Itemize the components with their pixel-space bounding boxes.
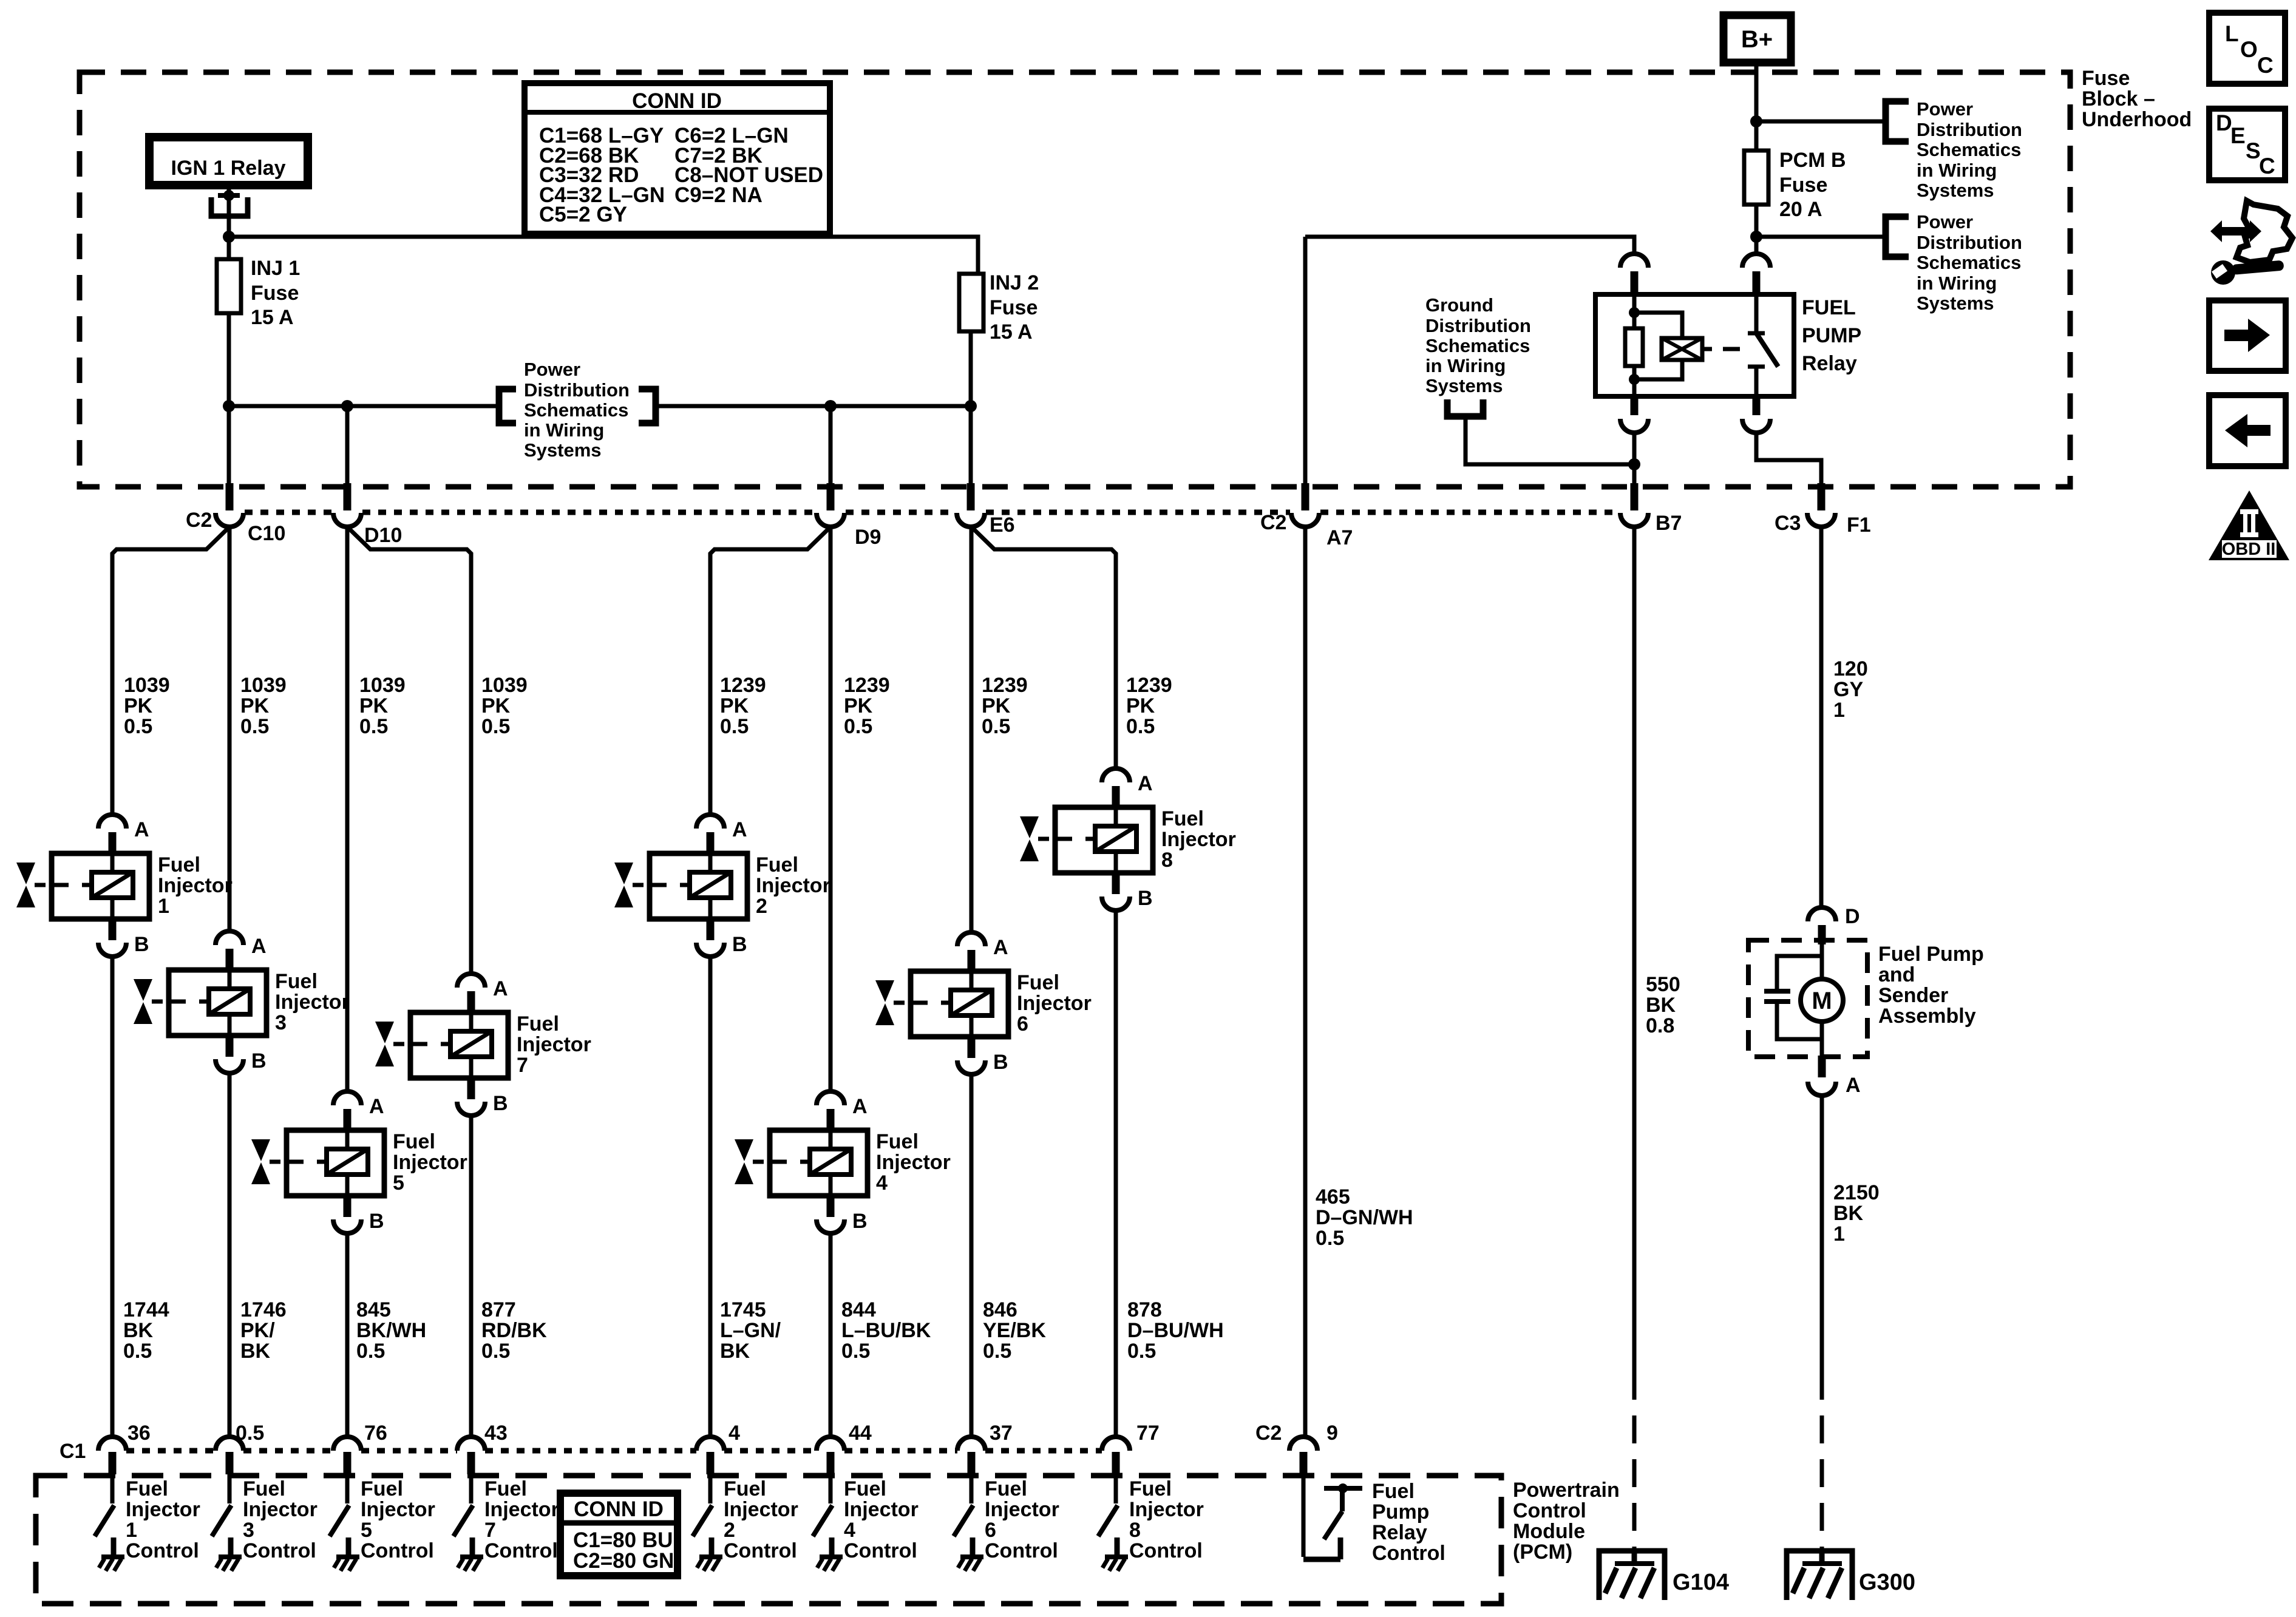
svg-text:Relay: Relay <box>1372 1521 1427 1544</box>
svg-text:1: 1 <box>1833 1222 1845 1246</box>
wire injector 4 return to PCM <box>829 1233 833 1437</box>
svg-text:Powertrain: Powertrain <box>1513 1479 1620 1502</box>
svg-text:550: 550 <box>1646 973 1680 996</box>
svg-text:Control: Control <box>126 1539 199 1562</box>
svg-text:Injector: Injector <box>756 874 830 897</box>
svg-text:Systems: Systems <box>1917 180 1994 201</box>
bracket power distribution callout right <box>639 389 656 423</box>
svg-text:Control: Control <box>243 1539 316 1562</box>
wire PCM B fuse to PD junction 2 <box>1754 205 1759 237</box>
bracket PD callout 2 <box>1886 217 1909 257</box>
svg-text:0.5: 0.5 <box>982 715 1010 738</box>
svg-text:Injector: Injector <box>484 1498 559 1521</box>
svg-text:G104: G104 <box>1673 1570 1729 1595</box>
switch fuel injector 1 control driver <box>95 1474 124 1571</box>
svg-text:B: B <box>1138 887 1153 910</box>
svg-text:PK: PK <box>481 694 511 717</box>
svg-text:Fuel Pump: Fuel Pump <box>1878 943 1984 966</box>
svg-text:Distribution: Distribution <box>1917 119 2022 140</box>
svg-text:Injector: Injector <box>158 874 233 897</box>
svg-text:C2=80 GN: C2=80 GN <box>573 1549 674 1573</box>
connector PCM pin 4 <box>696 1437 724 1451</box>
svg-text:Control: Control <box>1372 1542 1445 1565</box>
svg-text:C10: C10 <box>248 522 285 545</box>
svg-text:PK: PK <box>240 694 270 717</box>
svg-text:1: 1 <box>1833 699 1845 722</box>
wire C10 drop to injector 3 <box>228 527 232 931</box>
svg-text:Fuel: Fuel <box>361 1477 403 1500</box>
switch fuel injector 2 control driver <box>693 1474 722 1571</box>
wire E6 branch to injector 8 <box>971 527 1116 768</box>
motor fuel pump motor <box>1801 979 1843 1022</box>
node bus1 junction <box>223 231 235 243</box>
connector PCM pin 37 <box>957 1437 985 1451</box>
wire D10 branch to injector 7 <box>347 527 471 974</box>
wire B+ down to PD junction <box>1754 63 1759 121</box>
ground G104 <box>1599 1551 1665 1600</box>
svg-text:C2: C2 <box>186 509 212 532</box>
svg-text:OBD II: OBD II <box>2222 540 2276 559</box>
icon forward arrow box <box>2209 300 2286 371</box>
svg-text:M: M <box>1812 988 1832 1014</box>
connector relay switch top <box>1742 254 1770 268</box>
svg-text:0.8: 0.8 <box>1646 1014 1674 1037</box>
relay switch blade <box>1748 331 1765 336</box>
svg-text:1: 1 <box>126 1519 137 1542</box>
fuel injector 6 <box>875 932 1008 1074</box>
svg-text:Schematics: Schematics <box>1425 335 1530 356</box>
svg-text:846: 846 <box>983 1298 1017 1321</box>
svg-text:in Wiring: in Wiring <box>1917 273 1997 294</box>
svg-text:1239: 1239 <box>720 674 766 697</box>
svg-text:Sender: Sender <box>1878 984 1948 1007</box>
svg-text:C1: C1 <box>59 1440 86 1463</box>
svg-text:PK: PK <box>720 694 749 717</box>
svg-text:Fuel: Fuel <box>985 1477 1027 1500</box>
svg-text:Fuel: Fuel <box>756 853 798 876</box>
svg-text:FUEL: FUEL <box>1802 296 1856 319</box>
svg-text:INJ 1: INJ 1 <box>251 257 300 280</box>
connector F1 at fuse block boundary <box>1818 483 1826 510</box>
svg-text:D–BU/WH: D–BU/WH <box>1127 1319 1224 1342</box>
svg-text:7: 7 <box>484 1519 496 1542</box>
svg-text:Control: Control <box>985 1539 1058 1562</box>
wire bus2 to D9 connector <box>829 406 833 483</box>
svg-text:465: 465 <box>1316 1185 1350 1209</box>
node bus2 junction at INJ2 column <box>965 400 977 412</box>
bracket ground distribution callout <box>1447 399 1483 416</box>
svg-text:A: A <box>493 977 508 1000</box>
connector PCM pin 36 <box>98 1437 126 1451</box>
svg-text:C9=2 NA: C9=2 NA <box>674 183 763 207</box>
svg-text:Power: Power <box>524 359 580 380</box>
icon OBD II triangle <box>2209 490 2289 560</box>
svg-text:0.5: 0.5 <box>124 715 152 738</box>
svg-text:INJ 2: INJ 2 <box>990 271 1039 294</box>
svg-text:0.5: 0.5 <box>481 715 510 738</box>
svg-text:CONN ID: CONN ID <box>574 1497 664 1521</box>
svg-text:Fuel: Fuel <box>844 1477 886 1500</box>
connector B7 at fuse block boundary <box>1631 483 1639 510</box>
node ground distribution junction <box>1628 458 1640 470</box>
svg-text:Systems: Systems <box>1917 293 1994 314</box>
wire capacitor branch top <box>1777 956 1822 989</box>
svg-text:15 A: 15 A <box>990 320 1033 344</box>
svg-text:Fuel: Fuel <box>158 853 200 876</box>
wire E6 drop to injector 6 <box>970 527 974 932</box>
svg-text:Control: Control <box>724 1539 797 1562</box>
svg-text:PK: PK <box>1126 694 1155 717</box>
svg-text:1039: 1039 <box>359 674 406 697</box>
connector C10 at fuse block boundary <box>226 483 234 510</box>
svg-text:BK/WH: BK/WH <box>356 1319 426 1342</box>
node bus2 junction at D9 column <box>824 400 837 412</box>
svg-text:Ground: Ground <box>1425 294 1493 316</box>
svg-text:B: B <box>493 1092 508 1115</box>
svg-text:4: 4 <box>876 1171 888 1195</box>
svg-text:2150: 2150 <box>1833 1181 1880 1204</box>
wire relay coil to B7 <box>1632 433 1637 483</box>
svg-text:Assembly: Assembly <box>1878 1005 1976 1028</box>
svg-text:C: C <box>2259 154 2275 178</box>
svg-text:Fuse: Fuse <box>251 282 299 305</box>
svg-text:Relay: Relay <box>1802 352 1857 375</box>
svg-text:0.5: 0.5 <box>356 1340 385 1363</box>
wire INJ1 fuse to C2 connector <box>227 313 231 483</box>
wire bus2 right segment <box>656 404 971 408</box>
svg-text:Fuse: Fuse <box>1779 174 1827 197</box>
svg-text:C5=2 GY: C5=2 GY <box>539 203 627 226</box>
svg-text:3: 3 <box>243 1519 254 1542</box>
svg-text:(PCM): (PCM) <box>1513 1541 1572 1564</box>
connector relay switch bottom <box>1753 395 1761 415</box>
svg-text:6: 6 <box>985 1519 996 1542</box>
wire pump internal bottom <box>1820 1022 1824 1057</box>
svg-text:1239: 1239 <box>844 674 890 697</box>
svg-text:Fuel: Fuel <box>724 1477 766 1500</box>
svg-text:Injector: Injector <box>844 1498 919 1521</box>
svg-text:1239: 1239 <box>982 674 1028 697</box>
svg-text:O: O <box>2240 37 2258 62</box>
svg-text:Injector: Injector <box>1161 828 1236 851</box>
svg-text:76: 76 <box>364 1422 387 1445</box>
svg-text:Fuel: Fuel <box>126 1477 168 1500</box>
svg-text:C3: C3 <box>1775 512 1801 535</box>
wire C2 branch to injector 1 <box>112 527 229 815</box>
fuse block underhood dashed boundary <box>80 72 2070 487</box>
fuel injector 8 <box>1020 768 1153 910</box>
fuel injector 2 <box>614 815 747 957</box>
svg-text:Power: Power <box>1917 211 1973 232</box>
wire bus2 left segment <box>229 404 498 408</box>
svg-text:E6: E6 <box>990 514 1015 537</box>
switch fuel injector 3 control driver <box>212 1474 242 1571</box>
wire bus1 to INJ2 fuse <box>229 237 978 274</box>
fuse PCM B <box>1744 151 1768 205</box>
wire D9 drop to injector 4 <box>829 527 833 1091</box>
wire IGN relay to bus junction <box>227 185 231 237</box>
wire injector 7 return to PCM <box>469 1116 474 1437</box>
svg-text:PK: PK <box>844 694 873 717</box>
svg-text:1: 1 <box>158 895 169 918</box>
svg-text:D9: D9 <box>855 526 881 549</box>
svg-text:E: E <box>2230 123 2246 148</box>
svg-text:Fuel: Fuel <box>484 1477 527 1500</box>
fuse INJ 2 <box>959 274 983 331</box>
svg-text:in Wiring: in Wiring <box>1917 160 1997 181</box>
svg-text:A: A <box>1846 1074 1861 1097</box>
wire PD branch 1 <box>1756 120 1886 124</box>
svg-text:Control: Control <box>1129 1539 1203 1562</box>
switch fuel injector 8 control driver <box>1098 1474 1128 1571</box>
IGN 1 Relay box <box>149 137 308 185</box>
switch fuel pump relay control driver <box>1303 1474 1362 1559</box>
fuel pump and sender assembly dashed box <box>1748 940 1867 1057</box>
wire relay coil loop <box>1634 313 1682 379</box>
svg-text:7: 7 <box>517 1054 528 1077</box>
svg-text:4: 4 <box>844 1519 855 1542</box>
wire B7 dashed section <box>1632 1372 1637 1548</box>
wire A7 riser <box>1303 237 1308 483</box>
svg-text:120: 120 <box>1833 657 1868 680</box>
connector PCM pin 9 <box>1289 1437 1317 1451</box>
svg-text:S: S <box>2246 138 2261 163</box>
svg-text:Distribution: Distribution <box>524 379 630 401</box>
svg-text:D: D <box>1845 905 1860 928</box>
svg-text:BK: BK <box>123 1319 154 1342</box>
wire pump to ground solid <box>1820 1096 1824 1372</box>
svg-text:PK/: PK/ <box>240 1319 275 1342</box>
svg-text:43: 43 <box>484 1422 508 1445</box>
wire injector 1 return to PCM <box>110 957 115 1437</box>
svg-text:Power: Power <box>1917 98 1973 120</box>
svg-text:0.5: 0.5 <box>983 1340 1011 1363</box>
svg-text:Injector: Injector <box>243 1498 318 1521</box>
svg-text:Fuel: Fuel <box>1017 971 1059 994</box>
svg-text:B: B <box>369 1210 384 1233</box>
connector pump D <box>1808 907 1836 921</box>
svg-text:878: 878 <box>1127 1298 1162 1321</box>
svg-text:9: 9 <box>1326 1422 1338 1445</box>
svg-text:0.5: 0.5 <box>1126 715 1155 738</box>
svg-text:Distribution: Distribution <box>1917 232 2022 253</box>
svg-text:Fuel: Fuel <box>1161 807 1204 830</box>
switch fuel injector 4 control driver <box>813 1474 843 1571</box>
node bus2 junction at D10 column <box>341 400 353 412</box>
svg-text:B: B <box>251 1049 267 1073</box>
svg-text:6: 6 <box>1017 1012 1028 1036</box>
fuel injector 7 <box>375 974 508 1116</box>
svg-text:37: 37 <box>990 1422 1013 1445</box>
fuse INJ 1 <box>217 259 241 313</box>
fuel injector 5 <box>251 1091 384 1233</box>
svg-text:1039: 1039 <box>124 674 170 697</box>
connector D9 at fuse block boundary <box>827 483 835 510</box>
wire relay resistor bottom <box>1632 366 1637 396</box>
PCM dotted connector row <box>126 1448 216 1454</box>
svg-text:F1: F1 <box>1847 514 1871 537</box>
svg-text:1745: 1745 <box>720 1298 766 1321</box>
IGN 1 relay output terminal clip <box>223 190 234 201</box>
svg-text:Systems: Systems <box>524 439 602 461</box>
svg-text:A: A <box>732 818 747 841</box>
svg-text:A: A <box>369 1095 384 1118</box>
icon DESC box <box>2209 109 2285 180</box>
wire injector 6 return to PCM <box>970 1074 974 1437</box>
node PD branch 2 <box>1750 231 1762 243</box>
connector PCM pin 77 <box>1102 1437 1130 1451</box>
svg-text:C: C <box>2257 53 2274 78</box>
icon LOC box <box>2209 13 2285 84</box>
svg-text:D–GN/WH: D–GN/WH <box>1316 1206 1413 1229</box>
wire A7 to PCM pin 9 <box>1303 527 1308 1437</box>
svg-text:Block –: Block – <box>2082 87 2155 110</box>
svg-text:0.5: 0.5 <box>123 1340 152 1363</box>
svg-text:YE/BK: YE/BK <box>983 1319 1046 1342</box>
svg-text:Fuel: Fuel <box>393 1130 435 1153</box>
svg-text:Pump: Pump <box>1372 1500 1429 1524</box>
svg-text:8: 8 <box>1129 1519 1141 1542</box>
relay coil to switch dashed link <box>1702 347 1712 351</box>
wire injector 5 return to PCM <box>345 1233 350 1437</box>
svg-text:0.5: 0.5 <box>481 1340 510 1363</box>
svg-text:0.5: 0.5 <box>236 1422 264 1445</box>
svg-text:Injector: Injector <box>517 1033 591 1056</box>
ground G300 <box>1787 1551 1852 1600</box>
svg-text:BK: BK <box>1646 994 1676 1017</box>
switch fuel injector 7 control driver <box>453 1474 483 1571</box>
wire INJ1 fuse feed <box>227 237 231 259</box>
resistor relay coil resistor <box>1625 328 1643 366</box>
svg-text:77: 77 <box>1136 1422 1160 1445</box>
svg-text:PUMP: PUMP <box>1802 324 1861 347</box>
svg-text:0.5: 0.5 <box>841 1340 870 1363</box>
connector relay coil top <box>1620 254 1648 268</box>
svg-text:A7: A7 <box>1326 526 1353 549</box>
svg-text:Injector: Injector <box>985 1498 1059 1521</box>
svg-text:Fuse: Fuse <box>990 296 1038 319</box>
svg-text:Injector: Injector <box>126 1498 200 1521</box>
svg-text:1039: 1039 <box>481 674 528 697</box>
wire PD junction to PCM B fuse <box>1754 121 1759 151</box>
fuel injector 4 <box>735 1091 868 1233</box>
CONN ID table (PCM) <box>560 1493 678 1576</box>
svg-text:A: A <box>251 935 267 958</box>
powertrain control module dashed box <box>36 1476 1501 1604</box>
switch fuel injector 6 control driver <box>954 1474 983 1571</box>
wire injector 2 return to PCM <box>708 957 713 1437</box>
svg-text:PK: PK <box>124 694 153 717</box>
svg-text:G300: G300 <box>1859 1570 1915 1595</box>
svg-text:A: A <box>852 1095 868 1118</box>
wire ground distribution link <box>1466 416 1634 464</box>
wire INJ2 fuse to E6 connector <box>969 331 973 483</box>
svg-text:PCM B: PCM B <box>1779 149 1846 172</box>
wire D10 drop to injector 5 <box>345 527 350 1091</box>
svg-text:in Wiring: in Wiring <box>1425 355 1506 376</box>
svg-text:2: 2 <box>756 895 767 918</box>
svg-text:36: 36 <box>127 1422 151 1445</box>
wire bus2 to D10 connector <box>345 406 350 483</box>
connector D10 at fuse block boundary <box>344 483 352 510</box>
svg-text:Injector: Injector <box>275 991 350 1014</box>
svg-text:A: A <box>1138 772 1153 795</box>
svg-text:5: 5 <box>361 1519 372 1542</box>
svg-text:Schematics: Schematics <box>1917 252 2021 273</box>
svg-text:0.5: 0.5 <box>1316 1227 1344 1250</box>
svg-text:20 A: 20 A <box>1779 198 1822 221</box>
svg-text:845: 845 <box>356 1298 391 1321</box>
svg-text:1744: 1744 <box>123 1298 169 1321</box>
connector A7 at fuse block boundary <box>1302 483 1309 510</box>
fuel injector 1 <box>16 815 149 957</box>
svg-text:BK: BK <box>1833 1202 1864 1225</box>
fuel injector 3 <box>134 931 267 1073</box>
svg-text:C2: C2 <box>1255 1422 1282 1445</box>
svg-text:Systems: Systems <box>1425 375 1503 396</box>
svg-text:A: A <box>134 818 149 841</box>
svg-text:B: B <box>993 1051 1008 1074</box>
wire capacitor branch bottom <box>1777 1004 1822 1039</box>
svg-text:1039: 1039 <box>240 674 287 697</box>
wire relay switch to F1 <box>1756 433 1821 483</box>
wire pump internal top <box>1820 940 1824 979</box>
B+ power symbol <box>1724 15 1791 63</box>
svg-text:0.5: 0.5 <box>720 715 749 738</box>
svg-text:Injector: Injector <box>1017 992 1092 1015</box>
svg-text:Control: Control <box>1513 1499 1586 1522</box>
svg-text:5: 5 <box>393 1171 404 1195</box>
svg-text:1239: 1239 <box>1126 674 1172 697</box>
svg-text:Control: Control <box>361 1539 434 1562</box>
relay FUEL PUMP box <box>1595 294 1794 396</box>
node PD branch 1 <box>1750 115 1762 127</box>
svg-text:4: 4 <box>729 1422 740 1445</box>
connector relay coil bottom <box>1631 395 1639 415</box>
connector PCM pin 76 <box>333 1437 361 1451</box>
node relay coil top junction <box>1629 307 1640 318</box>
svg-text:44: 44 <box>849 1422 872 1445</box>
wire pump ground dashed section <box>1820 1372 1824 1548</box>
connector PCM pin 43 <box>457 1437 485 1451</box>
svg-text:Injector: Injector <box>1129 1498 1204 1521</box>
svg-text:B: B <box>852 1210 868 1233</box>
svg-text:Distribution: Distribution <box>1425 315 1531 336</box>
svg-text:PK: PK <box>982 694 1011 717</box>
bracket power distribution callout left <box>499 389 516 423</box>
svg-text:A: A <box>993 936 1008 959</box>
svg-text:PK: PK <box>359 694 389 717</box>
svg-text:Schematics: Schematics <box>1917 139 2021 160</box>
svg-text:2: 2 <box>724 1519 735 1542</box>
node bus2 junction at INJ1 column <box>223 400 235 412</box>
wire switch feed <box>1754 237 1759 254</box>
svg-text:Underhood: Underhood <box>2082 108 2192 131</box>
svg-text:BK: BK <box>720 1340 750 1363</box>
svg-text:Control: Control <box>844 1539 917 1562</box>
svg-text:3: 3 <box>275 1011 287 1034</box>
svg-text:Fuse: Fuse <box>2082 67 2130 90</box>
svg-text:Injector: Injector <box>393 1151 467 1174</box>
svg-text:8: 8 <box>1161 849 1173 872</box>
icon part locator with wrench <box>2210 201 2292 285</box>
svg-text:Fuel: Fuel <box>517 1012 559 1036</box>
svg-text:B: B <box>732 933 747 956</box>
svg-text:D10: D10 <box>364 524 402 547</box>
relay solenoid coil box <box>1662 338 1702 360</box>
wire PD branch 2 <box>1756 235 1886 239</box>
wire relay coil branch top <box>1632 294 1637 328</box>
